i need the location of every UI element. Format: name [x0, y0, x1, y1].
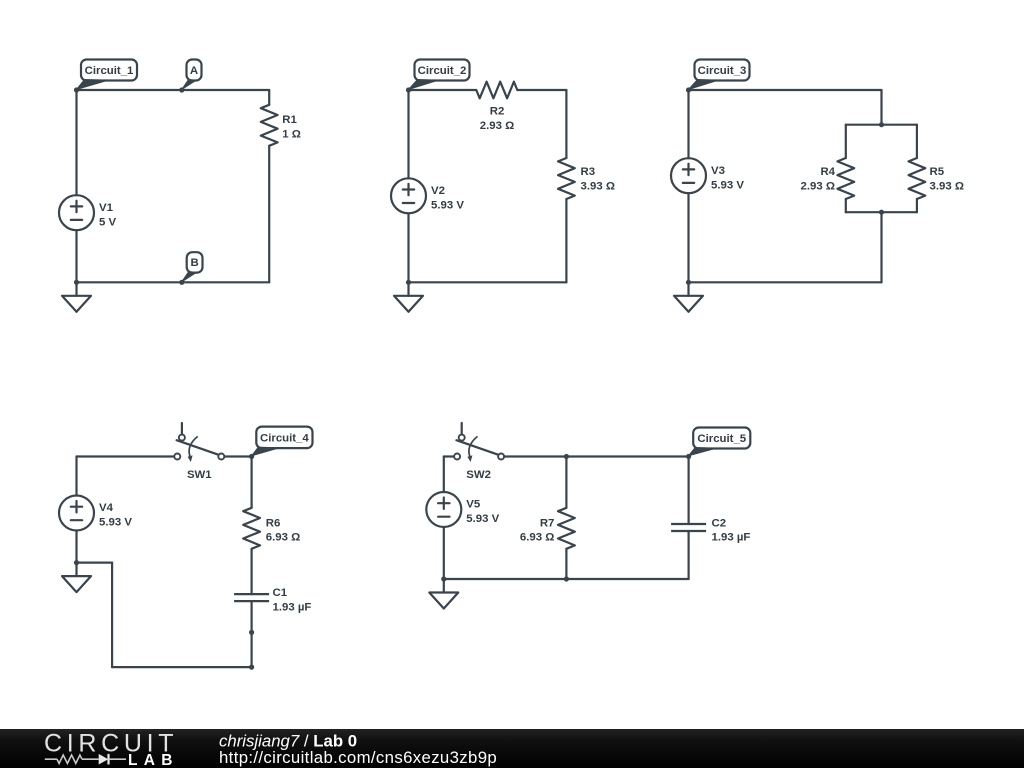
svg-text:http://circuitlab.com/cns6xezu: http://circuitlab.com/cns6xezu3zb9p: [219, 748, 497, 767]
svg-text:R5: R5: [930, 166, 945, 178]
svg-text:1.93 µF: 1.93 µF: [712, 532, 751, 544]
svg-text:LAB: LAB: [128, 752, 179, 768]
svg-text:Circuit_2: Circuit_2: [418, 65, 467, 77]
svg-text:V5: V5: [466, 499, 481, 511]
svg-text:C1: C1: [273, 587, 288, 599]
svg-text:R3: R3: [581, 166, 596, 178]
svg-text:Circuit_1: Circuit_1: [85, 65, 134, 77]
svg-text:A: A: [190, 65, 198, 77]
svg-text:Circuit_5: Circuit_5: [697, 433, 746, 445]
svg-text:V2: V2: [431, 185, 445, 197]
svg-text:SW2: SW2: [466, 469, 491, 481]
svg-text:R4: R4: [820, 166, 835, 178]
svg-text:V1: V1: [99, 202, 114, 214]
svg-text:SW1: SW1: [187, 469, 212, 481]
svg-text:6.93 Ω: 6.93 Ω: [520, 532, 554, 544]
svg-text:5.93 V: 5.93 V: [431, 200, 464, 212]
svg-text:5 V: 5 V: [99, 217, 116, 229]
svg-text:V4: V4: [99, 502, 114, 514]
svg-text:2.93 Ω: 2.93 Ω: [480, 120, 514, 132]
svg-text:5.93 V: 5.93 V: [466, 513, 499, 525]
svg-text:C2: C2: [712, 518, 727, 530]
svg-text:3.93 Ω: 3.93 Ω: [930, 181, 964, 193]
svg-text:Circuit_3: Circuit_3: [698, 65, 747, 77]
svg-text:6.93 Ω: 6.93 Ω: [266, 532, 300, 544]
svg-text:1 Ω: 1 Ω: [282, 129, 301, 141]
svg-text:5.93 V: 5.93 V: [99, 517, 132, 529]
svg-text:2.93 Ω: 2.93 Ω: [801, 181, 835, 193]
svg-text:R7: R7: [540, 518, 555, 530]
svg-text:V3: V3: [711, 165, 725, 177]
svg-text:R1: R1: [282, 114, 297, 126]
svg-text:Circuit_4: Circuit_4: [260, 433, 309, 445]
svg-text:R2: R2: [490, 106, 505, 118]
svg-text:R6: R6: [266, 518, 281, 530]
svg-text:B: B: [190, 257, 198, 269]
svg-text:5.93 V: 5.93 V: [711, 180, 744, 192]
svg-text:3.93 Ω: 3.93 Ω: [581, 181, 615, 193]
svg-text:1.93 µF: 1.93 µF: [273, 602, 312, 614]
